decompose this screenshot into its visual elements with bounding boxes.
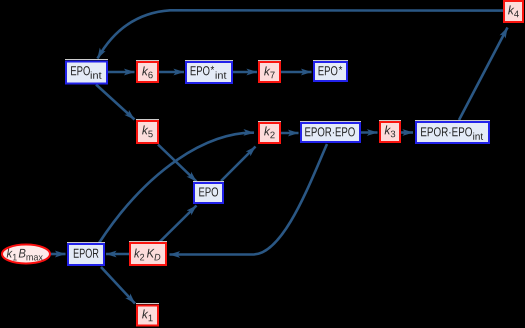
- node k4: [504, 1, 523, 22]
- wire k4 to EPOint (recycling curve): [98, 10, 504, 58]
- node k1: [136, 304, 159, 326]
- node EPO*: [313, 61, 348, 82]
- wire EPO to k2: [221, 147, 256, 182]
- wire EPOint to k5: [96, 85, 135, 120]
- node EPOR.EPO: [300, 122, 361, 143]
- wire k7 to EPO*: [281, 71, 312, 74]
- node k2: [258, 122, 281, 144]
- wire EPOR.EPOint to k4: [459, 28, 508, 121]
- wire EPO*int to k7: [233, 71, 257, 74]
- wire k3 to EPOR.EPOint: [401, 131, 413, 134]
- node EPOR.EPOint: [415, 121, 490, 144]
- wire k2KD to EPO: [159, 206, 197, 243]
- node EPO: [193, 182, 224, 204]
- node k3: [379, 121, 401, 143]
- node k6: [136, 61, 159, 83]
- node k1Bmax ellipse: [2, 245, 50, 264]
- wire k2KD to EPOR: [106, 253, 129, 256]
- wire k5 to EPO: [158, 145, 197, 182]
- wire EPOR.EPO to k2KD: [170, 144, 328, 255]
- wire EPOR to k1: [101, 267, 135, 304]
- wire EPOint to k6: [108, 71, 135, 74]
- node EPOint: [65, 60, 108, 84]
- wire EPOR curving to k2: [99, 133, 254, 243]
- node EPO*int: [185, 61, 233, 84]
- node EPOR: [67, 243, 105, 266]
- node k5: [136, 120, 159, 144]
- wire EPOR.EPO to k3: [361, 131, 378, 134]
- wire k2 to EPOR.EPO: [281, 132, 299, 135]
- wire k6 to EPO*int: [159, 71, 184, 74]
- wire k1Bmax to EPOR: [51, 253, 66, 256]
- node k7: [258, 61, 281, 83]
- node k2KD: [129, 242, 167, 266]
